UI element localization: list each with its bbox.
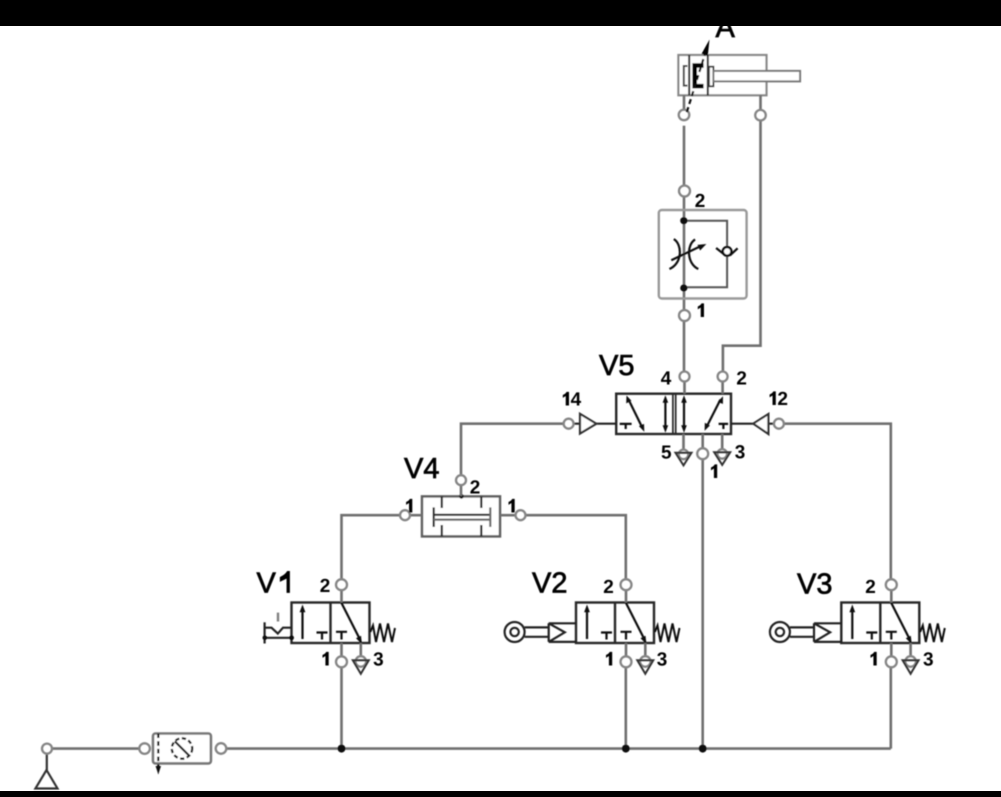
valve V5 (5/2-way double air pilot) [564,372,784,466]
junction dot bus/V2 [622,745,630,753]
V3 exhaust port3 [905,656,916,667]
wire cylinder left port to throttle port2 [683,126,686,186]
V3 port label 1 [870,652,876,666]
V3 port label 2 [866,580,875,593]
wire supply to shutoff valve [52,747,139,750]
V5 port2 connection [718,372,728,382]
label A [716,17,735,37]
bypass loop [684,221,727,288]
V1 port1 connection [336,656,347,667]
label V3 [797,573,831,594]
V4 top port2 connection [456,475,466,485]
compressed air supply source [35,754,57,789]
valve V3 (3/2-way, roller actuator, spring return) [841,579,945,674]
V2 roller actuator [505,622,576,642]
throttle port label 1 [698,303,704,317]
spring V1 [370,624,395,643]
V3 port1 connection [886,656,897,667]
V4 left port1 connection [400,510,410,520]
wire V4 port2 to V5 pilot 14 [461,424,564,476]
V1 port stubs [342,590,361,656]
V4 port label 1 right [508,499,514,513]
V1 detent actuator [265,622,292,643]
V4 port label 1 left [406,499,412,513]
wire V2 port1 to bus [624,667,627,749]
piston lines [688,55,690,95]
V5 port4 connection [680,372,690,382]
fcv port1 connection [679,310,690,321]
V2 port label 1 [606,652,612,666]
valve V2 (3/2-way, roller actuator, spring return) [576,579,680,674]
wire V5 port1 to bus [701,459,704,748]
V5 port label 4 [661,371,671,384]
V1 port2 connection [336,579,347,590]
rod flange [709,67,714,87]
throttle arcs [669,239,679,269]
V1 port label 3 [374,652,383,665]
V2 port label 3 [657,652,666,665]
V5 port label 3 [735,445,744,458]
V5 port1 connection [697,448,708,459]
wire throttle internal line [683,197,686,311]
V5 exhaust port5 [679,450,689,460]
cylinder port stubs [684,95,761,110]
throttle adjust arrow [671,247,700,261]
check valve [723,247,732,256]
V5 port label 1 [711,464,717,478]
shut-off valve left port [139,743,150,754]
V4 port label 2 [470,480,479,493]
V3 port2 connection [886,579,897,590]
V5 pilot 14 [574,423,617,425]
fcv port2 connection [679,186,690,197]
V2 port label 2 [604,580,613,593]
wire V4 left port to V1 port2 [342,515,401,579]
supply connection port [42,744,52,754]
cushion bracket [684,66,688,86]
label V2 [532,572,566,592]
valve V4 (two-pressure valve AND) [400,475,526,536]
label V4 [404,458,438,478]
V2 exhaust port3 [640,656,651,667]
shut-off valve (supply on/off) [153,734,211,775]
valve V1 (3/2-way, detent actuator, spring return) [292,579,396,674]
wire V1 port1 to bus [340,667,343,748]
label V5 [599,355,633,375]
wire V4 right port to V2 port2 [526,515,626,579]
cylinder right port connection [755,110,766,121]
V1 exhaust port3 [356,656,367,667]
piston rod [713,71,800,82]
piston magnet [692,63,703,88]
V5 pilot 12 [731,423,774,425]
top border bar [0,0,1001,26]
spring V3 [920,624,945,643]
V5 pilot label 14 [563,392,581,406]
V2 port1 connection [621,656,632,667]
wire throttle port1 to V5 port4 [683,321,686,372]
throttle port label 2 [695,194,704,207]
wire cylinder right port to V5 port2 [723,121,761,372]
cylinder left port connection [679,110,690,121]
wire bottom supply bus [226,747,891,750]
V2 port stubs [626,590,645,656]
V3 port label 3 [923,652,932,665]
V3 port stubs [891,590,910,656]
shut-off valve right port [216,743,227,754]
V5 exhaust port3 [717,449,727,459]
label V1 [257,571,290,592]
junction dot bus/V5 [699,745,707,753]
V2 port2 connection [621,579,632,590]
V5 port label 2 [737,371,746,384]
V5 pilot label 12 [770,391,788,405]
one-way flow control valve (throttle with check bypass) [659,186,747,322]
V3 roller actuator [770,622,841,642]
V1 port label 1 [322,652,328,666]
internal junction dots [680,217,687,224]
V4 right port1 connection [516,510,526,520]
cylinder A (double-acting) [678,40,800,121]
wire bus to V3 port1 riser [889,668,892,749]
spring V2 [655,624,680,643]
wire V3 port2 to V5 pilot 12 [784,424,891,580]
V5 top stubs [684,382,723,450]
bottom border bar [0,791,1001,797]
V1 port label 2 [320,579,329,592]
label arrow to A [687,55,705,112]
junction dot bus/V1 [338,745,346,753]
V5 port label 5 [662,446,671,459]
labels (as vector paths) [257,17,933,666]
